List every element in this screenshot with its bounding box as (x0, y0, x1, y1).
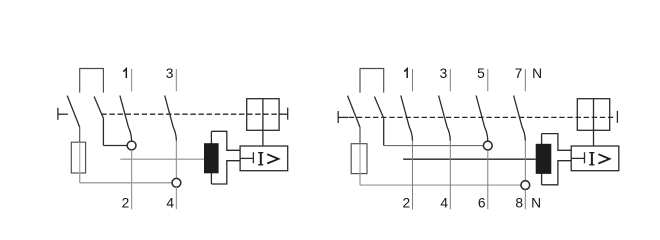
svg-text:2: 2 (403, 196, 411, 211)
svg-text:4: 4 (166, 196, 174, 211)
svg-text:8: 8 (515, 196, 523, 211)
svg-text:3: 3 (166, 66, 174, 81)
svg-text:4: 4 (440, 196, 448, 211)
svg-text:2: 2 (122, 196, 130, 211)
svg-text:7: 7 (515, 66, 523, 81)
svg-text:5: 5 (477, 66, 485, 81)
svg-text:N: N (532, 66, 542, 81)
svg-text:N: N (531, 196, 541, 211)
svg-text:6: 6 (478, 196, 486, 211)
svg-text:3: 3 (440, 66, 448, 81)
